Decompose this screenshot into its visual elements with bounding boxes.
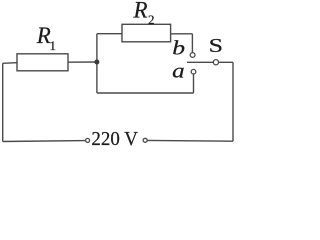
wire: bottom right from source terminal: [147, 139, 233, 142]
resistor R1: [17, 54, 68, 71]
resistor R2: [122, 24, 171, 42]
switch S pivot circle: [213, 60, 218, 65]
wire: bottom branch (a branch): [97, 92, 194, 94]
contact a terminal circle: [191, 69, 196, 74]
source terminal right circle: [143, 138, 147, 142]
svg-text:S: S: [209, 35, 223, 56]
switch S blade: [187, 61, 233, 63]
svg-text:220 V: 220 V: [91, 128, 138, 150]
contact b terminal circle: [190, 53, 195, 58]
wire: R1 right stub to junction: [68, 61, 97, 63]
node junction dot: [94, 60, 99, 65]
wire: down to contact b: [191, 34, 193, 53]
source terminal left circle: [86, 138, 90, 142]
wire: R1 left stub: [3, 62, 17, 65]
svg-text:b: b: [172, 37, 185, 59]
svg-text:a: a: [172, 60, 184, 82]
wire: bottom left to source terminal: [3, 140, 86, 143]
wire: junction vertical branch: [96, 34, 98, 93]
svg-text:2: 2: [148, 12, 155, 27]
wire: contact a up from bottom branch: [193, 74, 195, 93]
wire: right side vertical: [232, 62, 234, 141]
wire: R2 right stub: [171, 33, 193, 35]
wire: left side vertical: [2, 63, 4, 141]
svg-text:R: R: [133, 0, 148, 23]
wire: R2 left stub: [97, 33, 122, 35]
svg-text:1: 1: [50, 38, 57, 53]
